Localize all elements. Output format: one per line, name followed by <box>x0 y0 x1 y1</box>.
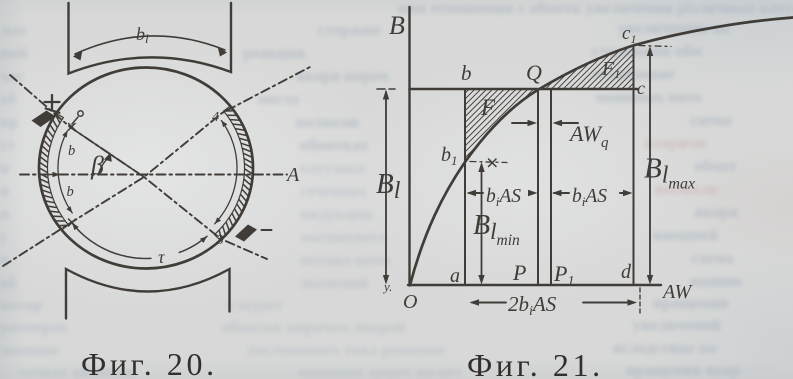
pole arc dimension b_l <box>75 36 225 54</box>
B axis vertical <box>408 7 410 286</box>
svg-text:B: B <box>389 11 405 40</box>
radius line centre to point 2 <box>70 127 144 177</box>
svg-text:b: b <box>68 143 75 159</box>
x marker point 2 <box>69 124 76 131</box>
AW axis horizontal <box>408 284 661 286</box>
svg-text:F: F <box>480 95 496 120</box>
dimension B_l left <box>385 92 387 281</box>
minus sign <box>262 229 272 231</box>
dimension B_l_max <box>649 49 651 281</box>
centre line horizontal A <box>20 174 287 176</box>
ordinate line d c <box>633 46 635 286</box>
svg-text:Q: Q <box>526 60 542 85</box>
dimension b_i AS left <box>469 192 483 194</box>
ordinate line P <box>537 90 539 286</box>
svg-text:b: b <box>461 61 472 85</box>
hatched area F <box>465 89 538 162</box>
hatched area F1 <box>539 46 634 90</box>
svg-text:AW: AW <box>661 281 693 303</box>
bottom pole shoe <box>66 269 230 319</box>
svg-text:Bl: Bl <box>376 168 401 204</box>
top pole shoe <box>69 3 232 74</box>
svg-text:Blmax: Blmax <box>644 153 695 193</box>
ordinate line a b <box>464 89 466 285</box>
svg-text:b: b <box>67 184 74 200</box>
magnetisation curve <box>410 18 793 286</box>
tick arrow across left band on horizontal axis <box>39 174 60 176</box>
dashed extension below d <box>639 288 641 313</box>
pole pitch arc tau from 1 to 3 <box>72 223 151 258</box>
B_l level line b Q c <box>410 88 638 91</box>
svg-text:biAS: biAS <box>486 186 521 209</box>
svg-text:a: a <box>450 265 460 287</box>
rotor armature circle <box>39 68 253 269</box>
svg-text:bl: bl <box>136 24 149 46</box>
diagonal axis through brushes 2-3 <box>10 75 267 259</box>
dimension arc along left band from 2 to 1 <box>58 131 72 213</box>
svg-text:Blmin: Blmin <box>473 210 520 249</box>
svg-text:c: c <box>637 78 645 98</box>
x marker and dash at b1 <box>489 159 497 167</box>
svg-text:AWq: AWq <box>568 121 609 151</box>
svg-text:b1: b1 <box>441 144 458 168</box>
svg-text:A: A <box>285 164 300 186</box>
bleed-through rows <box>398 0 793 18</box>
caption figure 21 <box>467 347 604 379</box>
stub and small circle at point 2 <box>72 117 78 124</box>
svg-text:4: 4 <box>212 110 219 125</box>
brush plus top left <box>32 111 56 128</box>
svg-text:P: P <box>512 260 526 285</box>
dash extension at c1 <box>639 46 671 47</box>
winding band right (hatched commutation zone) <box>214 106 253 240</box>
AW_q arrows <box>512 122 531 124</box>
dimension 2 b_i AS <box>472 302 506 304</box>
winding band left (hatched commutation zone) <box>39 113 68 230</box>
brush minus bottom right <box>235 225 257 242</box>
svg-text:d: d <box>621 261 632 283</box>
caption figure 20 <box>81 346 218 379</box>
svg-text:2biAS: 2biAS <box>508 292 557 319</box>
svg-text:O: O <box>403 291 417 313</box>
x marker point 1 <box>69 219 76 226</box>
dimension arc along right band from 4 to 3 <box>215 121 237 224</box>
dimension b_i AS right <box>554 192 569 194</box>
svg-text:P1: P1 <box>553 261 574 289</box>
svg-text:у.: у. <box>382 279 392 294</box>
dimension B_l_min <box>481 165 483 281</box>
svg-text:biAS: biAS <box>572 186 607 209</box>
plus sign <box>45 95 60 109</box>
ordinate line P1 <box>550 90 552 286</box>
svg-text:τ: τ <box>158 247 165 267</box>
svg-text:β: β <box>90 151 104 180</box>
svg-text:3: 3 <box>216 233 224 248</box>
diagonal axis 1-4 <box>3 67 310 266</box>
svg-text:c1: c1 <box>622 23 636 46</box>
angle beta arc arrow <box>98 159 108 176</box>
